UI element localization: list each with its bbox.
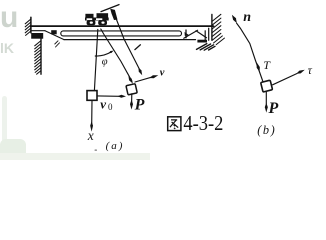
T arrowhead <box>257 62 260 71</box>
column edge <box>40 39 42 74</box>
beam bottom chord <box>64 39 196 41</box>
right wall hatching <box>212 14 225 44</box>
bob (a) <box>126 84 137 95</box>
velocity v0 arrow <box>98 95 120 97</box>
left wall face <box>30 17 32 33</box>
beam underside right taper <box>196 31 207 38</box>
svg-text:(a): (a) <box>106 140 125 152</box>
right end flag <box>185 30 187 38</box>
svg-text:φ: φ <box>102 56 108 67</box>
pendulum string A <box>101 29 132 81</box>
svg-text:x: x <box>87 128 94 143</box>
velocity v arrow <box>135 77 152 82</box>
svg-text:4-3-2: 4-3-2 <box>183 111 223 135</box>
n arrowhead <box>232 15 237 23</box>
label l tick <box>135 45 141 50</box>
svg-text:v: v <box>160 67 165 78</box>
trolley block <box>87 91 97 101</box>
phi arc <box>95 52 111 56</box>
vertical reference line <box>94 30 97 91</box>
svg-text:P: P <box>134 96 145 113</box>
right end vertical rib <box>204 31 206 40</box>
left wall hatching <box>25 19 31 35</box>
beam web slot <box>61 31 182 36</box>
corbel block <box>31 33 43 39</box>
weight P arrow (a) <box>131 94 133 103</box>
beam left end plate <box>31 27 45 31</box>
beam end stop block left <box>51 30 57 34</box>
string A arrowhead <box>128 76 133 84</box>
watermark streak left edge <box>2 96 7 146</box>
svg-text:(b): (b) <box>257 123 276 137</box>
svg-text:0: 0 <box>108 102 113 112</box>
beam underside left taper <box>45 31 64 40</box>
right end foot <box>197 40 207 43</box>
svg-text:lK: lK <box>0 40 14 56</box>
tau arrow <box>273 74 297 85</box>
svg-text:P: P <box>268 100 279 117</box>
(b) n axis line <box>237 23 263 81</box>
watermark smudge bottom-left <box>0 139 26 160</box>
svg-text:τ: τ <box>308 63 313 77</box>
beam top chord <box>30 25 213 27</box>
svg-text:n: n <box>243 10 251 25</box>
svg-text:T: T <box>263 58 271 72</box>
string B thick top <box>110 9 117 20</box>
right wall face <box>211 15 213 41</box>
bob (b) <box>261 80 273 92</box>
svg-text:v: v <box>100 97 106 112</box>
scan band bottom <box>0 153 150 160</box>
string B arrowhead <box>138 68 142 76</box>
stray ticks under beam left <box>56 43 60 47</box>
phi arc arrowhead <box>109 51 114 54</box>
right foot hatch wedge <box>197 44 216 51</box>
trolley mast line <box>101 5 119 12</box>
svg-text:u: u <box>0 1 18 34</box>
right end plate <box>208 28 210 40</box>
caption glyph tu SVG <box>168 117 181 131</box>
string B raised line <box>113 10 141 72</box>
x axis line <box>91 101 93 125</box>
x axis arrowhead <box>90 121 93 132</box>
trolley body <box>85 13 109 25</box>
scan speck <box>95 150 98 151</box>
column hatching <box>35 41 41 75</box>
weight P arrow (b) <box>265 92 267 104</box>
